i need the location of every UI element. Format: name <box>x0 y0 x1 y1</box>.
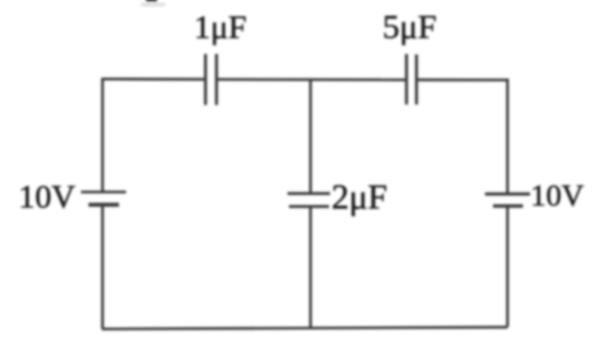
svg-text:1μF: 1μF <box>194 10 247 46</box>
svg-text:10V: 10V <box>19 180 76 216</box>
svg-text:10V: 10V <box>531 178 585 213</box>
svg-text:5μF: 5μF <box>383 9 437 46</box>
svg-text:2μF: 2μF <box>332 178 388 217</box>
